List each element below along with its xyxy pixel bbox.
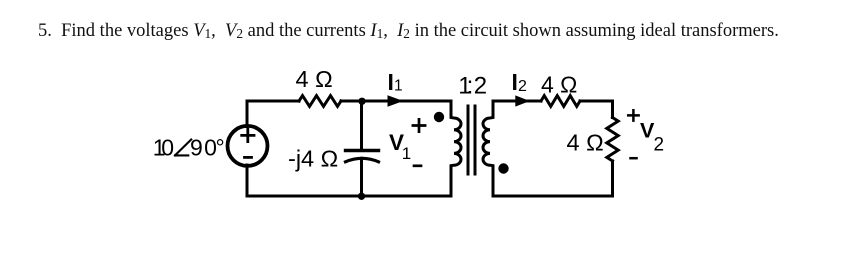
arrow I2 current direction <box>515 95 530 106</box>
capacitor bottom plate (curved) <box>346 158 379 162</box>
resistor 4 ohm (right vertical zigzag) <box>607 118 618 161</box>
wire: right vertical bottom <box>611 161 614 196</box>
wire: source top lead up and right to resistor <box>247 101 299 127</box>
svg-text:1: 1 <box>402 144 411 163</box>
label I1 <box>388 69 403 95</box>
transformer secondary winding <box>483 101 493 196</box>
wire: secondary top to resistor <box>493 100 541 103</box>
transformer core line 1 <box>467 106 470 174</box>
wire: resistor to transformer primary top <box>341 100 451 103</box>
wire: bottom rail secondary side <box>493 195 613 198</box>
label V2 <box>640 119 664 156</box>
svg-text:10: 10 <box>153 135 174 161</box>
svg-text:-j4 Ω: -j4 Ω <box>288 146 338 172</box>
secondary polarity dot <box>498 163 508 173</box>
svg-text:90°: 90° <box>190 135 225 161</box>
wire: source bottom lead to bottom rail <box>247 165 451 196</box>
svg-text:I: I <box>512 69 518 95</box>
source polarity plus <box>242 129 254 141</box>
V1 polarity minus <box>414 164 421 167</box>
V2 polarity plus <box>628 110 638 120</box>
capacitor bottom lead <box>360 158 363 196</box>
V2 polarity minus <box>631 157 637 160</box>
arrow I1 current direction <box>388 95 404 107</box>
wire: secondary resistor to right corner down <box>580 101 613 118</box>
svg-text:1:2: 1:2 <box>458 73 487 100</box>
transformer core line 2 <box>474 106 477 174</box>
capacitor top plate (straight) <box>346 149 379 152</box>
primary polarity dot <box>434 112 444 122</box>
resistor 4 ohm (secondary top, horizontal zigzag) <box>541 96 580 107</box>
source polarity minus <box>245 156 252 159</box>
svg-text:4 Ω: 4 Ω <box>541 72 577 98</box>
label I2 <box>512 69 528 95</box>
svg-text:4 Ω: 4 Ω <box>567 130 604 156</box>
voltage source circle 10 angle 90 <box>228 126 268 166</box>
capacitor -j4 ohm top lead <box>360 101 363 149</box>
svg-text:4 Ω: 4 Ω <box>296 66 333 92</box>
angle symbol (drawn, missing from font) <box>175 140 191 156</box>
svg-text:2: 2 <box>654 135 665 156</box>
label V1 <box>389 130 411 163</box>
V1 polarity plus <box>413 119 425 131</box>
svg-text:I: I <box>388 69 394 95</box>
svg-text:2: 2 <box>518 78 527 95</box>
transformer primary winding <box>451 101 461 196</box>
resistor 4 ohm (top left, horizontal zigzag) <box>299 96 341 107</box>
node B junction dot (bottom of capacitor branch) <box>358 193 365 200</box>
svg-text:1: 1 <box>394 78 403 95</box>
node A junction dot (top of capacitor branch) <box>358 98 365 105</box>
